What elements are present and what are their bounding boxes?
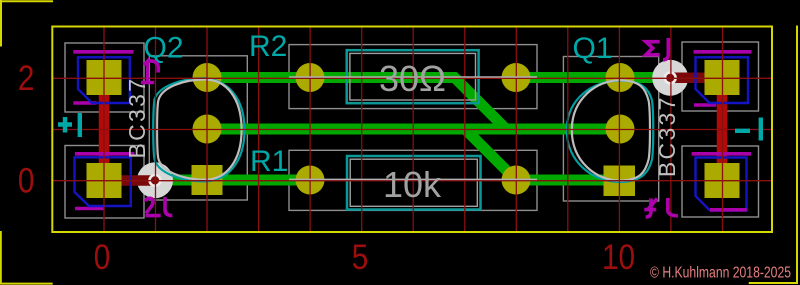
resistor R1 courtyard box xyxy=(289,150,537,210)
sheet corner mark bottom-right xyxy=(749,26,798,284)
svg-text:0: 0 xyxy=(18,161,35,200)
connector X1 pin2 outline box (bottom-left) xyxy=(65,146,144,219)
svg-text:© H.Kuhlmann 2018-2025: © H.Kuhlmann 2018-2025 xyxy=(650,265,791,282)
transistor Q2 body outline (white) xyxy=(157,80,242,180)
svg-text:5: 5 xyxy=(352,238,369,277)
wire: dark red trace left connector to white pad xyxy=(104,175,159,186)
svg-text:10k: 10k xyxy=(383,164,442,205)
pad Q1.1 (round) xyxy=(606,63,635,92)
net label +1 (cyan) xyxy=(58,113,80,137)
pad X1.2 (square, bottom-left) xyxy=(87,163,122,198)
via/solder pad (white, left) xyxy=(137,162,173,198)
wire: green trace row2 R2 right pad to white pad xyxy=(516,72,671,83)
wire: green trace row0 white pad to R1 left pad xyxy=(156,175,311,186)
pad X2.2 (square, bottom-right) xyxy=(705,163,740,198)
grid vertical lines xyxy=(104,28,723,232)
pin number text near Q1 bottom (magenta, 4 1) xyxy=(644,198,678,217)
via hole ring (right) xyxy=(665,73,676,84)
sheet corner mark bottom-left xyxy=(1,231,53,284)
transistor Q1 body outline (cyan) xyxy=(567,81,653,182)
resistor R2 body box (cyan) xyxy=(347,50,479,103)
pad R1.2 (round) xyxy=(502,166,531,195)
wire: green trace row1 Q2 to Q1 xyxy=(207,124,620,135)
sheet corner mark top-left xyxy=(0,0,53,47)
pad X1.1 inner box (blue, chamfered) xyxy=(78,57,130,103)
pad R2.2 (round) xyxy=(502,63,531,92)
connector X2 pin2 outline box (bottom-right) xyxy=(682,146,759,217)
resistor R1 body box (gray inner) xyxy=(350,159,477,206)
via hole ring (left) xyxy=(150,175,161,186)
svg-text:BC337: BC337 xyxy=(654,95,680,177)
wire: green trace row0 R1 right pad to Q1 emitter xyxy=(516,175,620,186)
pad X2.2 inner box (blue, chamfered) xyxy=(696,158,747,211)
svg-text:Q1: Q1 xyxy=(573,32,613,65)
connector X1 silkscreen lines (magenta) xyxy=(73,50,133,54)
pad X1.1 (square, top-left) xyxy=(87,60,122,95)
pin number text above right via (magenta, sigma 1) xyxy=(646,38,669,60)
board dimension frame (yellow) xyxy=(52,27,772,233)
transistor Q1 courtyard box xyxy=(563,57,658,202)
pad Q1.2 (round) xyxy=(606,115,635,144)
pad X2.2 silkscreen over blue (magenta) xyxy=(710,208,747,212)
pad X2.1 inner box (blue, chamfered) xyxy=(696,57,749,103)
wire: red trace left connector vertical xyxy=(99,78,110,181)
net label -1 (cyan) xyxy=(735,118,761,141)
connector X1 pin1 outline box (top-left) xyxy=(65,43,144,112)
svg-text:30Ω: 30Ω xyxy=(379,58,446,99)
wire: green trace Q2 base row2 then diagonal down to row1 xyxy=(207,78,506,130)
wire: green diagonal row1 to R1 right pad xyxy=(464,128,517,181)
connector X2 pin1 outline box (top-right) xyxy=(682,42,759,111)
svg-text:0: 0 xyxy=(94,238,111,277)
via/solder pad (white, right) xyxy=(652,60,688,96)
pad Q2.2 (round) xyxy=(193,115,222,144)
transistor Q2 body outline (cyan) xyxy=(153,78,244,181)
wire: dark red trace white pad to right connector xyxy=(667,73,723,84)
svg-text:2: 2 xyxy=(18,59,35,98)
pin number text below left via (magenta, 2 1) xyxy=(145,197,172,216)
resistor R2 lead line xyxy=(289,76,537,78)
pad X2.1 (square, top-right) xyxy=(705,60,740,95)
pin number text near Q2 top (magenta) xyxy=(141,61,158,83)
resistor R1 body box (cyan) xyxy=(347,156,481,210)
resistor R2 body box (gray inner) xyxy=(350,53,476,100)
pad Q2.1 (round) xyxy=(193,63,222,92)
resistor R1 lead line xyxy=(289,178,537,180)
pad Q2.3 (square) xyxy=(192,165,223,195)
resistor R2 courtyard box xyxy=(289,45,537,109)
svg-text:R1: R1 xyxy=(250,145,288,178)
pad R2.1 (round) xyxy=(296,63,325,92)
pad R1.1 (round) xyxy=(296,166,325,195)
transistor Q1 body outline (white) xyxy=(572,80,650,180)
connector X2 silkscreen lines (magenta) xyxy=(694,50,752,54)
wire: red trace right connector vertical xyxy=(717,78,728,181)
pad Q1.3 (square) xyxy=(604,166,636,197)
svg-text:10: 10 xyxy=(602,238,635,277)
transistor Q2 courtyard box xyxy=(149,56,247,200)
grid horizontal lines xyxy=(53,78,772,180)
pad X1.2 inner box (blue, chamfered) xyxy=(75,157,131,206)
svg-text:BC337: BC337 xyxy=(124,77,150,159)
svg-text:R2: R2 xyxy=(249,30,287,63)
